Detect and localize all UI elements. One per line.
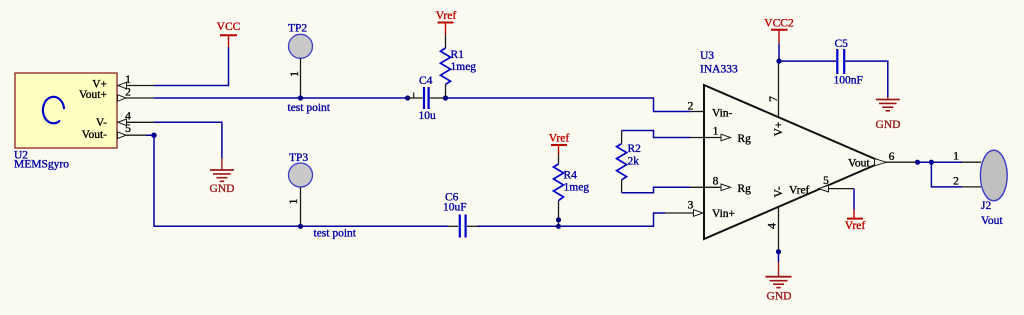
svg-text:1: 1	[289, 71, 301, 77]
svg-text:Rg: Rg	[738, 183, 752, 195]
junction dot U3 pin 4	[776, 249, 781, 254]
svg-text:C4: C4	[419, 75, 433, 87]
capacitor C6	[460, 215, 466, 238]
svg-text:Vref: Vref	[436, 10, 457, 22]
power symbol VCC	[217, 21, 241, 47]
svg-text:TP2: TP2	[288, 23, 307, 35]
U2 pin 4 (V-)	[96, 111, 154, 130]
svg-text:2: 2	[688, 101, 694, 113]
svg-text:1: 1	[953, 151, 959, 163]
U2 designator text	[14, 150, 69, 171]
U3 pin 4 (V-)	[767, 186, 786, 251]
U3 pin 5 (Vref)	[789, 175, 854, 197]
power symbol Vref (pin 5)	[845, 210, 866, 232]
svg-text:MEMSgyro: MEMSgyro	[14, 159, 69, 171]
svg-text:5: 5	[823, 175, 829, 187]
svg-text:V-: V-	[773, 186, 785, 197]
ground GND (U2)	[210, 158, 235, 195]
svg-text:6: 6	[889, 151, 895, 163]
svg-text:4: 4	[767, 223, 779, 229]
svg-text:1: 1	[713, 126, 719, 138]
svg-text:4: 4	[125, 111, 131, 123]
svg-text:Rg: Rg	[738, 133, 752, 145]
wire R2 top to U3 pin 1	[622, 131, 691, 138]
wire VCC to U2 pin 1	[154, 47, 229, 86]
U2 pin 2 (Vout+)	[79, 87, 154, 102]
svg-text:1meg: 1meg	[451, 61, 477, 73]
resistor R2	[617, 144, 627, 180]
U3 pin 7 (V+)	[768, 61, 785, 136]
wire U2 pin 4 to GND	[154, 122, 222, 158]
wire output to J2 pin 2	[931, 162, 962, 187]
svg-text:2: 2	[953, 176, 959, 188]
svg-text:100nF: 100nF	[834, 75, 863, 87]
svg-text:R1: R1	[451, 49, 465, 61]
R4 top lead	[558, 155, 560, 164]
resistor R1	[441, 48, 451, 84]
svg-text:R4: R4	[564, 170, 578, 182]
wire R2 bottom to U3 pin 8	[622, 187, 691, 193]
C4 left lead	[408, 97, 423, 99]
svg-text:J2: J2	[981, 200, 991, 212]
ground GND (U3)	[766, 262, 792, 303]
svg-text:5: 5	[125, 123, 131, 135]
wire C4 to U3 pin 2	[445, 98, 691, 112]
svg-text:1: 1	[288, 198, 300, 204]
wire C5 to GND	[845, 61, 888, 97]
junction dot R4 lower	[556, 217, 561, 222]
wire U2 pin 5 down to test-point net	[146, 135, 448, 226]
junction dot U2 pin 5	[151, 133, 156, 138]
svg-text:Vin+: Vin+	[712, 208, 735, 220]
svg-text:2: 2	[125, 87, 131, 99]
wire U2 pin 2 to C4 (net Vout+)	[154, 97, 408, 99]
svg-text:Vref: Vref	[845, 220, 866, 232]
svg-text:GND: GND	[876, 119, 901, 131]
test point TP2	[288, 23, 313, 99]
wire VCC2 to U3 pin 7 / C5	[778, 43, 780, 61]
R1 top lead	[445, 35, 447, 48]
U3 pin 1 (Rg)	[691, 126, 751, 146]
svg-text:test point: test point	[314, 228, 357, 240]
junction dot at C4 left	[405, 95, 410, 100]
resistor R4	[554, 164, 564, 201]
svg-text:Vout: Vout	[848, 158, 870, 170]
svg-text:Vref: Vref	[789, 185, 810, 197]
J2 pin 2	[953, 176, 981, 188]
C4 polarity tick	[413, 93, 415, 98]
C6 right lead	[467, 225, 477, 227]
U3 pin 3 (Vin+)	[665, 200, 735, 221]
svg-text:C5: C5	[835, 38, 849, 50]
connector J2 body	[980, 150, 1007, 201]
svg-text:10uF: 10uF	[443, 202, 467, 214]
wire VCC2 node to C5	[779, 60, 836, 62]
U2 pin 5 (Vout-)	[82, 123, 146, 141]
R1 bottom lead	[445, 84, 447, 98]
svg-text:1: 1	[125, 74, 131, 86]
op-amp U3 INA333 body	[704, 85, 882, 239]
junction dot output 1	[915, 160, 920, 165]
svg-text:1meg: 1meg	[564, 182, 590, 194]
svg-text:Vout+: Vout+	[79, 89, 107, 101]
svg-text:U3: U3	[700, 50, 714, 62]
svg-text:test point: test point	[288, 102, 331, 114]
svg-text:8: 8	[713, 175, 719, 187]
C4 right lead	[430, 97, 445, 99]
svg-text:TP3: TP3	[289, 152, 308, 164]
junction dot TP2	[298, 95, 303, 100]
svg-text:Vout: Vout	[981, 215, 1003, 227]
test point TP3	[288, 152, 313, 226]
junction dot output 2	[929, 160, 934, 165]
svg-text:7: 7	[768, 96, 780, 102]
junction dot TP3	[298, 224, 303, 229]
C6 left lead	[448, 225, 458, 227]
U3 pin 6 (Vout)	[848, 151, 916, 170]
svg-text:10u: 10u	[419, 110, 437, 122]
power symbol Vref (R1 top)	[436, 10, 457, 35]
svg-text:VCC2: VCC2	[764, 18, 794, 30]
svg-text:Vref: Vref	[549, 133, 570, 145]
svg-text:2k: 2k	[628, 156, 640, 168]
svg-text:INA333: INA333	[700, 64, 738, 76]
junction dot R4 on wire	[556, 224, 561, 229]
svg-text:V-: V-	[96, 117, 107, 129]
power symbol Vref (R4 top)	[549, 133, 570, 156]
power symbol VCC2	[764, 18, 794, 44]
wire U3 pin 5 to Vref	[853, 189, 855, 210]
svg-text:VCC: VCC	[217, 21, 241, 33]
wire U3 pin 4 to GND	[778, 252, 780, 262]
svg-text:Vin-: Vin-	[712, 108, 733, 120]
svg-text:3: 3	[688, 200, 694, 212]
U3 designator	[700, 50, 738, 76]
J2 designator	[981, 200, 1003, 227]
ground GND (C5)	[876, 97, 901, 131]
wire U3 output to J2 pin 1	[916, 161, 962, 163]
U2 pin 1 (V+)	[92, 74, 154, 90]
svg-text:GND: GND	[210, 183, 235, 195]
wire C6 to U3 pin 3	[477, 213, 665, 226]
R2 top lead	[621, 131, 623, 144]
capacitor C4	[424, 87, 429, 109]
svg-text:R2: R2	[628, 143, 642, 155]
capacitor C5	[837, 49, 844, 74]
U3 pin 2 (Vin-)	[688, 101, 733, 120]
U3 pin 8 (Rg)	[691, 175, 751, 195]
junction dot VCC2 node	[776, 59, 781, 64]
svg-text:V+: V+	[773, 122, 785, 137]
R4 bottom lead	[558, 201, 560, 227]
junction dot at C4/R1	[443, 95, 448, 100]
svg-text:Vout-: Vout-	[82, 129, 108, 141]
R2 bottom lead	[621, 180, 623, 193]
IC U2 MEMSgyro body	[15, 73, 117, 148]
J2 pin 1	[953, 151, 981, 163]
svg-text:GND: GND	[767, 291, 792, 303]
